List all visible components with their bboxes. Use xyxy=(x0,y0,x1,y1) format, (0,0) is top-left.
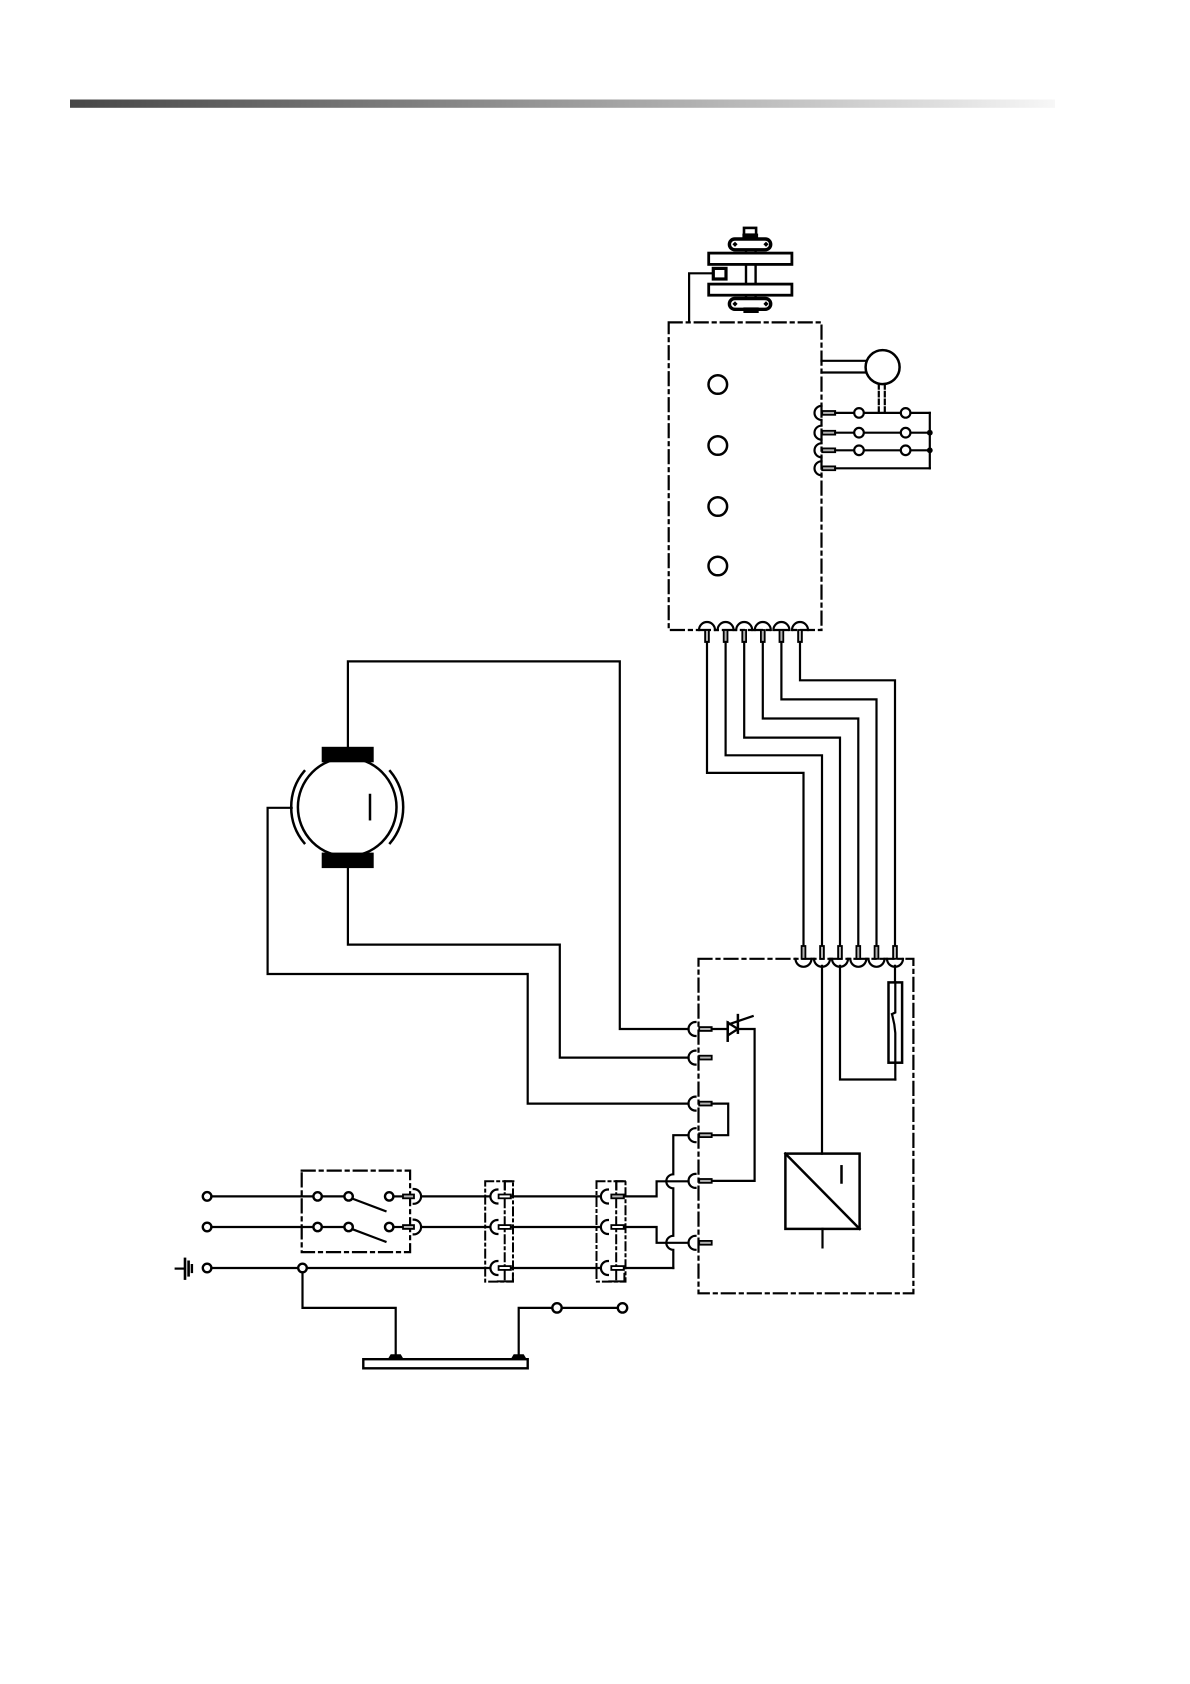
test point circle a xyxy=(552,1303,561,1312)
S1 row2 wire a-b xyxy=(322,1226,345,1228)
A1 top terminal hook t2 xyxy=(814,959,830,967)
S1 row2 pin xyxy=(403,1225,414,1229)
coupling lower hub (filled) xyxy=(745,309,758,312)
plug circle row3 b xyxy=(901,446,911,456)
wire X3 row2 to terminal F xyxy=(624,1227,689,1243)
wire U1-6 to A1-6 xyxy=(800,642,895,946)
motor brush mark xyxy=(369,795,372,819)
thyristor V1 anode bar xyxy=(726,1023,729,1041)
S1 row1 contact circle a xyxy=(313,1192,321,1200)
A1 top terminal pin t6 xyxy=(893,946,897,959)
X2 hook row2 xyxy=(490,1220,497,1234)
connector X1 hook 3 xyxy=(815,443,822,457)
wire terminal D to earth row with hops xyxy=(666,1135,688,1268)
thyristor V1 strike line xyxy=(728,1016,753,1024)
connector X1 pin 4 xyxy=(822,466,835,470)
S1 row2 hook xyxy=(414,1220,421,1235)
A1 top terminal hook t6 xyxy=(887,959,903,967)
X2 corner bracket bottom xyxy=(498,1274,513,1282)
connector X3 box (dash-dot) xyxy=(597,1181,626,1281)
wire X1 row 4 xyxy=(835,467,930,469)
A1 left terminal F hook xyxy=(689,1236,696,1250)
X2 hook row3 xyxy=(490,1261,497,1275)
coupling assembly top stud xyxy=(744,228,756,235)
wire between test points xyxy=(562,1307,618,1309)
motor M1 stator arc right xyxy=(390,771,403,843)
wire C to D internal xyxy=(712,1104,729,1136)
terminal hook b3 xyxy=(736,622,752,630)
wire X2 to X3 row3 xyxy=(511,1267,601,1269)
wire X1 row 1 xyxy=(835,412,930,414)
wire busbar up to test point xyxy=(519,1308,553,1354)
coupling upper pill plate xyxy=(729,239,770,250)
A1 top terminal pin t2 xyxy=(820,946,824,959)
wire A to thyristor xyxy=(712,1028,728,1030)
S1 row2 wire to pin xyxy=(393,1226,403,1228)
A1 top terminal hook t3 xyxy=(832,959,848,967)
A1 top terminal pin t1 xyxy=(802,946,806,959)
wire motor top brush to A1 terminal A xyxy=(348,661,689,1029)
A1 left terminal E pin xyxy=(699,1179,712,1183)
pill rivet left xyxy=(732,242,737,247)
S1 row1 pin xyxy=(403,1195,414,1199)
terminal pin b3 xyxy=(742,630,746,642)
connector X1 hook 1 xyxy=(815,406,822,420)
S1 row1 contact circle b xyxy=(344,1192,352,1200)
X3 pin row2 xyxy=(611,1225,624,1229)
plug circle row2 a xyxy=(854,428,864,438)
A1 top terminal hook t1 xyxy=(796,959,812,967)
S1 row1 hook xyxy=(414,1189,421,1204)
A1 top terminal hook t4 xyxy=(850,959,866,967)
wire A1-6 to fuse F1 xyxy=(894,966,896,983)
wire X3 row1 to terminal E xyxy=(624,1181,689,1196)
wire L1 into S1 xyxy=(211,1195,313,1197)
coupling shaft xyxy=(746,264,756,284)
wire A1-2 to power supply G1 xyxy=(821,966,823,1154)
X2 pin row2 xyxy=(499,1225,511,1229)
terminal hook b2 xyxy=(718,622,734,630)
control unit box U1 (dash-dot) xyxy=(669,322,822,630)
wire X1 row 2 xyxy=(835,432,930,434)
wire row1 to X2 xyxy=(421,1195,490,1197)
pill rivet right xyxy=(763,242,768,247)
S1 row2 contact circle b xyxy=(344,1223,352,1231)
wire row2 to X2 xyxy=(421,1226,490,1228)
G1 diagonal xyxy=(785,1154,859,1229)
A1 left terminal B pin xyxy=(699,1056,712,1060)
terminal pin b6 xyxy=(798,630,802,642)
S1 row2 contact circle a xyxy=(313,1223,321,1231)
wire U1-3 to A1-3 xyxy=(744,642,840,946)
terminal hook b6 xyxy=(792,622,808,630)
mechanical link dashed pair xyxy=(879,384,885,413)
connector X1 hook 4 xyxy=(815,461,822,475)
wire X3 row3 to D drop xyxy=(624,1267,673,1269)
X3 pin row3 xyxy=(611,1266,624,1270)
motor M1 stator arc left xyxy=(291,771,304,843)
sensor block xyxy=(713,268,726,279)
earth terminal circle xyxy=(203,1264,212,1273)
junction dot row2 xyxy=(927,430,933,436)
shaft stub lower xyxy=(746,295,756,298)
wire U1-1 to A1-1 xyxy=(707,642,804,946)
fuse F1 element xyxy=(892,982,895,1062)
terminal pin b4 xyxy=(761,630,765,642)
thyristor V1 cathode bar xyxy=(737,1015,740,1033)
ground symbol xyxy=(176,1267,184,1269)
connector X1 pin 1 xyxy=(822,411,835,415)
plug circle row1 b xyxy=(901,408,911,418)
connector X1 hook 2 xyxy=(815,426,822,440)
hand terminal circle B1 xyxy=(866,350,900,384)
A1 top terminal pin t3 xyxy=(838,946,842,959)
wire L2 into S1 xyxy=(211,1226,313,1228)
connector X1 pin 2 xyxy=(822,431,835,435)
connector X2 box (dash-dot) xyxy=(485,1181,513,1281)
wire sensor to control unit xyxy=(689,273,713,322)
S1 row1 wire to pin xyxy=(393,1195,403,1197)
thyristor V1 triangle xyxy=(728,1023,738,1036)
terminal circle L1 xyxy=(203,1192,212,1201)
wire earth row xyxy=(211,1267,298,1269)
plug circle row1 a xyxy=(854,408,864,418)
wire X2 to X3 row2 xyxy=(511,1226,601,1228)
indicator circle 1 xyxy=(709,375,728,394)
busbar right foot (filled) xyxy=(511,1354,527,1359)
terminal hook b1 xyxy=(699,622,715,630)
header gradient rule xyxy=(70,100,1055,108)
A1 left terminal A pin xyxy=(699,1027,712,1031)
terminal hook b4 xyxy=(755,622,771,630)
test point circle b xyxy=(618,1303,627,1312)
G1 bottom lead xyxy=(821,1229,823,1248)
wire pair to hand terminal xyxy=(822,361,866,373)
motor brush block bottom (filled) xyxy=(322,853,374,869)
G1 DC mark xyxy=(840,1166,843,1182)
X3 hook row2 xyxy=(601,1220,608,1234)
coupling lower pill plate xyxy=(729,299,770,310)
terminal circle L2 xyxy=(203,1223,212,1232)
A1 left terminal E hook xyxy=(689,1174,696,1188)
wire X2 to X3 row1 xyxy=(511,1195,601,1197)
junction dot row3 xyxy=(927,447,933,453)
X3 hook row1 xyxy=(601,1190,608,1204)
pill rivet right lower xyxy=(763,301,768,306)
X2 pin row3 xyxy=(499,1266,511,1270)
A1 top terminal hook t5 xyxy=(869,959,885,967)
indicator circle 4 xyxy=(709,557,728,576)
X2 middle split line xyxy=(504,1181,506,1281)
A1 left terminal D hook xyxy=(689,1128,696,1142)
X3 pin row1 xyxy=(611,1195,624,1199)
A1 top terminal pin t5 xyxy=(875,946,879,959)
X2 corner bracket top xyxy=(505,1181,514,1189)
motor M1 rotor circle xyxy=(298,758,397,857)
X3 hook row3 xyxy=(601,1261,608,1275)
A1 top terminal pin t4 xyxy=(856,946,860,959)
terminal pin b5 xyxy=(780,630,784,642)
busbar left foot (filled) xyxy=(388,1354,404,1359)
wire fuse to loop xyxy=(894,1063,896,1080)
X3 corner bracket bottom xyxy=(609,1274,624,1282)
busbar PE xyxy=(363,1359,527,1368)
wire A1-3 loop down xyxy=(840,966,895,1080)
coupling lower flange bar xyxy=(709,284,792,295)
A1 left terminal B hook xyxy=(689,1051,696,1065)
shaft stub upper xyxy=(746,250,756,253)
wire motor bottom brush to A1 terminal B xyxy=(348,868,689,1058)
A1 left terminal C hook xyxy=(689,1097,696,1111)
bus vertical right xyxy=(929,413,931,468)
earth junction circle xyxy=(298,1264,307,1273)
power supply G1 box xyxy=(785,1154,859,1229)
coupling assembly top hub (filled) xyxy=(744,235,758,240)
indicator circle 2 xyxy=(709,436,728,455)
wire X1 row 3 xyxy=(835,449,930,451)
earth row continues xyxy=(307,1267,491,1269)
S1 row2 contact circle c xyxy=(385,1223,393,1231)
terminal hook b5 xyxy=(773,622,789,630)
coupling upper flange bar xyxy=(709,253,792,264)
motor brush block top (filled) xyxy=(322,747,374,763)
S1 row1 contact circle c xyxy=(385,1192,393,1200)
wire motor frame to A1 terminal C xyxy=(268,808,689,1104)
X3 corner bracket top xyxy=(616,1181,625,1189)
wire U1-4 to A1-4 xyxy=(763,642,859,946)
X2 hook row1 xyxy=(490,1190,497,1204)
X3 middle split line xyxy=(615,1181,617,1281)
S1 row2 blade xyxy=(352,1229,385,1242)
A1 left terminal F pin xyxy=(699,1241,712,1245)
plug circle row2 b xyxy=(901,428,911,438)
X2 pin row1 xyxy=(499,1195,511,1199)
fuse F1 body xyxy=(889,982,903,1062)
switch S1 box (dash-dot) xyxy=(302,1171,410,1253)
S1 row1 blade xyxy=(352,1199,385,1212)
A1 left terminal C pin xyxy=(699,1102,712,1106)
indicator circle 3 xyxy=(709,497,728,516)
wire earth junction down to busbar xyxy=(303,1272,396,1354)
A1 left terminal D pin xyxy=(699,1133,712,1137)
wire U1-2 to A1-2 xyxy=(726,642,822,946)
terminal pin b2 xyxy=(724,630,728,642)
pill rivet left lower xyxy=(732,301,737,306)
connector X1 pin 3 xyxy=(822,448,835,452)
wire U1-5 to A1-5 xyxy=(781,642,876,946)
terminal pin b1 xyxy=(705,630,709,642)
converter box A1 (dash-dot) xyxy=(699,959,914,1294)
A1 left terminal A hook xyxy=(689,1022,696,1036)
wire thyristor to terminal E xyxy=(712,1029,755,1181)
plug circle row3 a xyxy=(854,446,864,456)
S1 row1 wire a-b xyxy=(322,1195,345,1197)
